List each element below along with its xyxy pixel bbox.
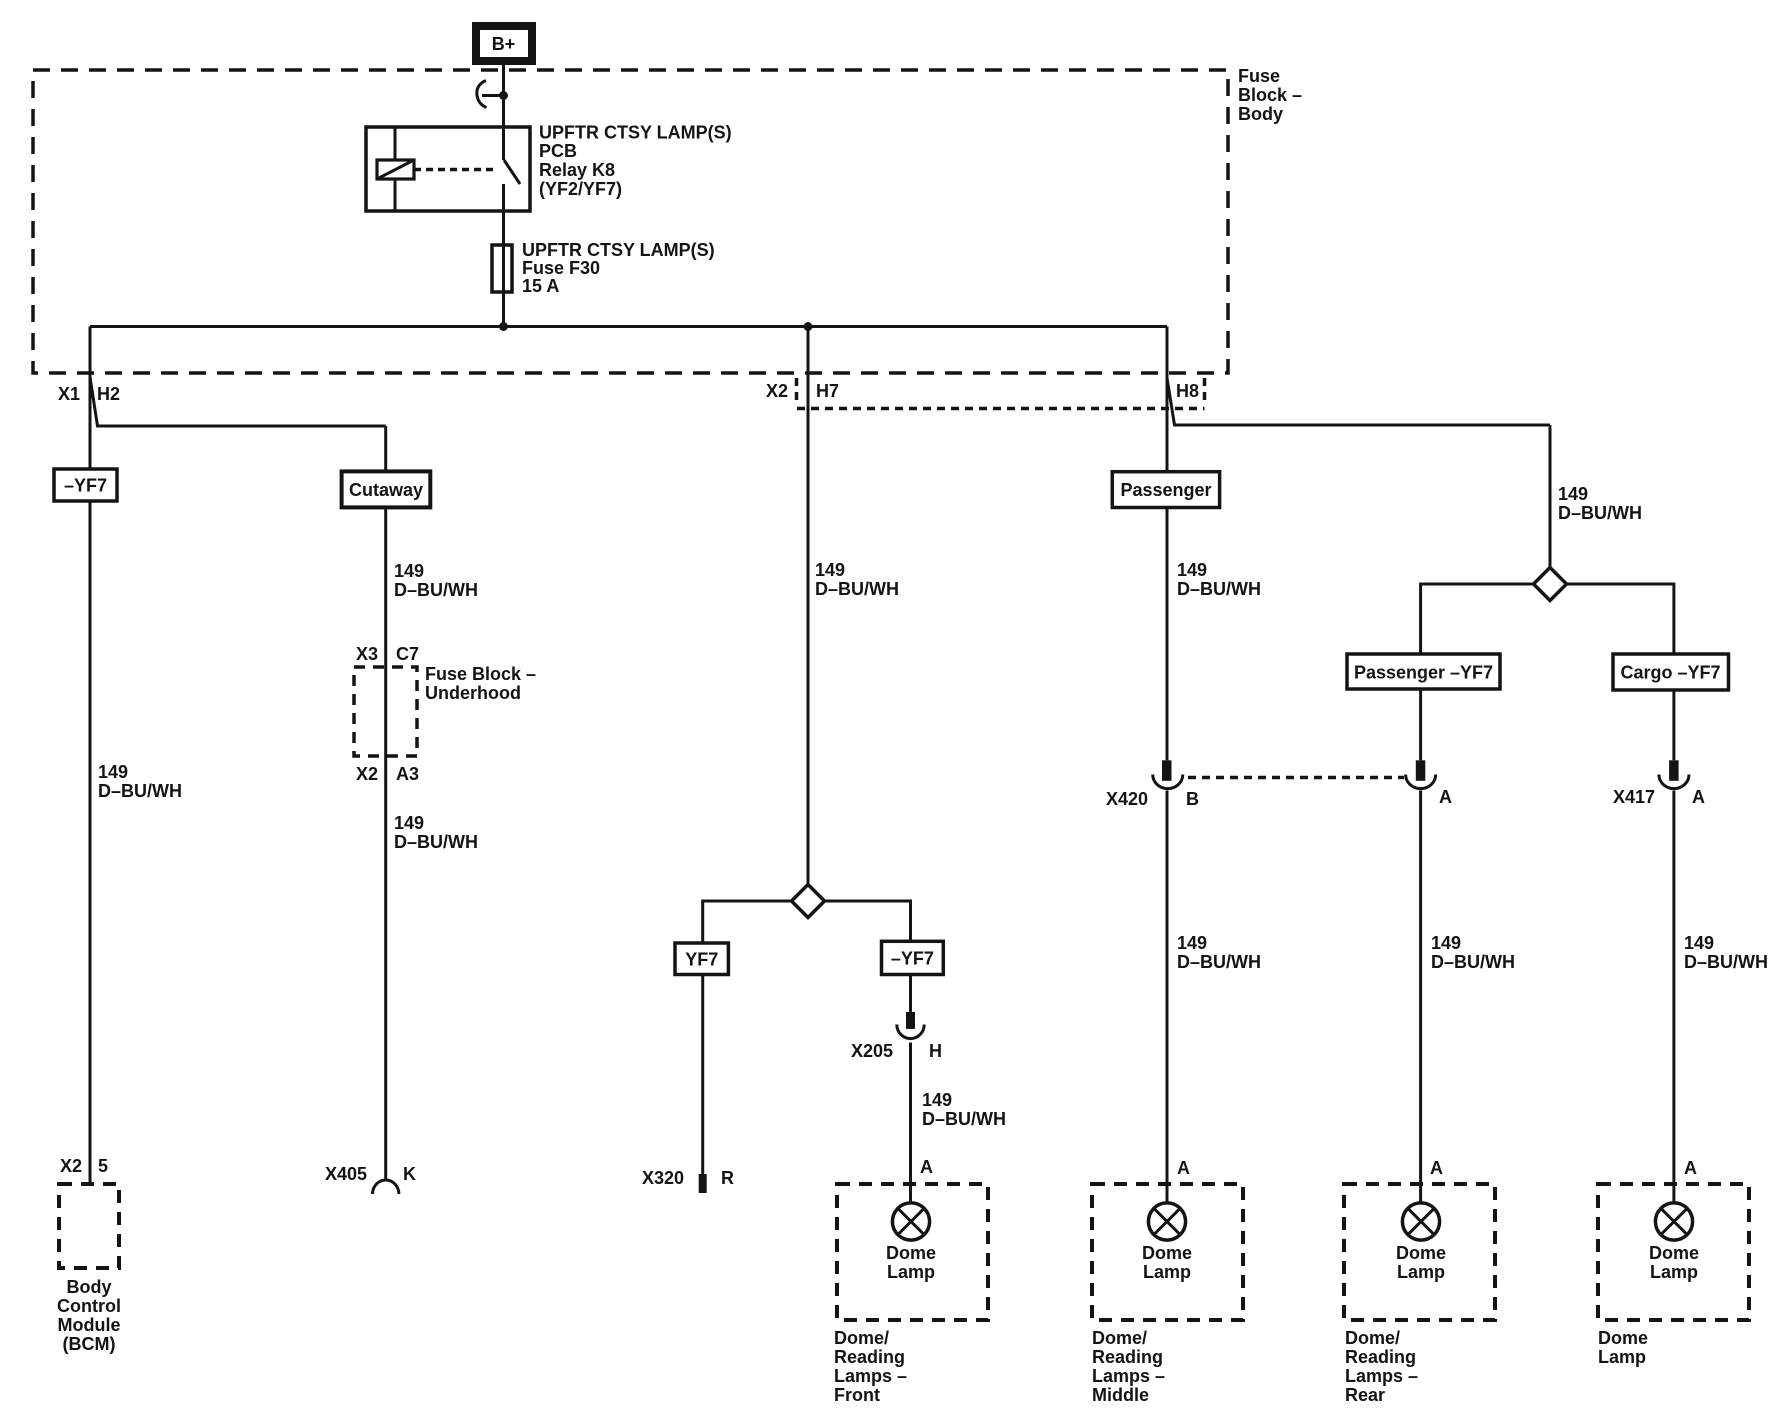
relay output wire [502,184,505,327]
svg-text:149: 149 [922,1090,952,1110]
svg-text:Fuse F30: Fuse F30 [522,258,600,278]
lamp E middle [1148,1203,1185,1240]
option box Cargo -YF7 [1613,654,1729,690]
svg-text:D–BU/WH: D–BU/WH [1558,503,1642,523]
svg-text:X3: X3 [356,644,378,664]
dome reading lamps rear dashed box [1344,1184,1495,1320]
svg-text:D–BU/WH: D–BU/WH [922,1109,1006,1129]
svg-text:Dome: Dome [1598,1328,1648,1348]
svg-text:Lamp: Lamp [1650,1262,1698,1282]
wire jog H8 to right branch [1167,378,1550,425]
svg-text:Lamps –: Lamps – [1092,1366,1165,1386]
wire cutaway drop [384,426,387,1180]
wire -YF7 to X205 [909,975,912,1012]
svg-text:C7: C7 [396,644,419,664]
svg-text:Dome/: Dome/ [1092,1328,1147,1348]
svg-text:A: A [920,1157,933,1177]
svg-text:Lamp: Lamp [1397,1262,1445,1282]
svg-text:Front: Front [834,1385,880,1405]
wire label 149 D-BU/WH cutaway lower [394,813,478,852]
svg-text:YF7: YF7 [685,950,718,970]
svg-text:Body: Body [1238,104,1283,124]
relay label [539,123,732,200]
svg-text:Cargo –YF7: Cargo –YF7 [1620,663,1720,683]
relay contact feed wire [502,127,505,160]
svg-text:X417: X417 [1613,787,1655,807]
svg-text:Reading: Reading [834,1347,905,1367]
wire label 149 D-BU/WH middle [1177,933,1261,972]
svg-text:Control: Control [57,1296,121,1316]
fusible element symbol [477,81,508,108]
wire label 149 D-BU/WH right [1558,484,1642,523]
wire H7 drop [807,327,810,885]
splice diamond S-mid [792,885,825,918]
relay switch blade [504,160,520,184]
svg-text:149: 149 [1684,933,1714,953]
BCM label [57,1277,121,1354]
svg-text:Lamp: Lamp [1598,1347,1646,1367]
svg-text:X405: X405 [325,1164,367,1184]
svg-text:5: 5 [98,1156,108,1176]
wire right feed drop [1549,425,1552,568]
connector link dashed X420 to A [1188,776,1404,780]
relay coil [377,160,414,179]
option box Passenger [1112,472,1219,508]
option box YF7 [675,943,728,975]
lamp label rear [1396,1243,1446,1282]
svg-text:Underhood: Underhood [425,683,521,703]
connector X420 [1153,760,1183,788]
wire label 149 D-BU/WH left [98,762,182,801]
option box Passenger -YF7 [1347,654,1500,689]
wire splice to -YF7 [825,901,911,941]
wire X420 to dome lamp middle [1166,791,1169,1203]
wire to dome lamp rear [1419,791,1422,1203]
lamp E cargo [1655,1203,1692,1240]
wire splice to Passenger-YF7 [1421,584,1534,654]
wire splice to YF7 [703,901,792,943]
svg-text:–YF7: –YF7 [891,949,934,969]
fuse F30 [492,245,512,292]
svg-text:B+: B+ [492,34,516,54]
fuse block body label [1238,66,1302,124]
wire label 149 D-BU/WH X205 [922,1090,1006,1129]
relay inner divider [394,127,397,211]
svg-text:Body: Body [67,1277,112,1297]
svg-text:Dome: Dome [886,1243,936,1263]
fuse block body dashed box [33,70,1228,373]
svg-text:A3: A3 [396,764,419,784]
connector X205 [897,1012,924,1039]
svg-text:Fuse: Fuse [1238,66,1280,86]
option box -YF7 left [54,469,117,501]
svg-text:H8: H8 [1176,381,1199,401]
fuse F30 label [522,240,715,296]
svg-text:H: H [929,1041,942,1061]
svg-text:Rear: Rear [1345,1385,1385,1405]
svg-text:A: A [1177,1158,1190,1178]
svg-text:A: A [1439,787,1452,807]
svg-text:Dome/: Dome/ [1345,1328,1400,1348]
wire Cargo-YF7 to X417 [1672,690,1675,760]
wire to dome lamp cargo [1672,791,1675,1203]
svg-text:Middle: Middle [1092,1385,1149,1405]
svg-text:D–BU/WH: D–BU/WH [1177,579,1261,599]
svg-text:D–BU/WH: D–BU/WH [394,580,478,600]
BCM dashed box [59,1184,119,1268]
power feed B+ [476,26,532,61]
caption rear [1345,1328,1418,1405]
svg-text:A: A [1692,787,1705,807]
svg-text:Dome/: Dome/ [834,1328,889,1348]
svg-text:Dome: Dome [1142,1243,1192,1263]
svg-text:X320: X320 [642,1168,684,1188]
svg-text:H2: H2 [97,384,120,404]
bus wire [90,325,1167,328]
svg-text:Lamp: Lamp [887,1262,935,1282]
svg-text:PCB: PCB [539,141,577,161]
svg-text:Dome: Dome [1396,1243,1446,1263]
svg-text:R: R [721,1168,734,1188]
option box -YF7 mid [882,941,944,974]
svg-text:Relay K8: Relay K8 [539,160,615,180]
dome lamp cargo dashed box [1598,1184,1749,1320]
junction fuse-bus [499,322,508,331]
caption front [834,1328,907,1405]
svg-text:A: A [1684,1158,1697,1178]
svg-text:H7: H7 [816,381,839,401]
svg-text:Reading: Reading [1092,1347,1163,1367]
svg-text:149: 149 [1177,560,1207,580]
svg-text:Passenger –YF7: Passenger –YF7 [1354,663,1493,683]
wire Passenger-YF7 to connector [1419,689,1422,760]
svg-text:Block –: Block – [1238,85,1302,105]
svg-text:UPFTR CTSY LAMP(S): UPFTR CTSY LAMP(S) [522,240,715,260]
svg-text:Lamps –: Lamps – [834,1366,907,1386]
svg-text:Reading: Reading [1345,1347,1416,1367]
wire label 149 D-BU/WH passenger [1177,560,1261,599]
wire X205 to dome lamp front [909,1043,912,1203]
option box Cutaway [342,471,431,507]
svg-text:Passenger: Passenger [1120,480,1211,500]
svg-text:D–BU/WH: D–BU/WH [1431,952,1515,972]
svg-text:149: 149 [98,762,128,782]
svg-text:149: 149 [1431,933,1461,953]
svg-text:149: 149 [1558,484,1588,504]
lamp label front [886,1243,936,1282]
svg-text:D–BU/WH: D–BU/WH [1684,952,1768,972]
wire label 149 D-BU/WH cargo [1684,933,1768,972]
wire left drop H2 to BCM [89,327,92,1185]
svg-text:X2: X2 [766,381,788,401]
svg-text:Cutaway: Cutaway [349,480,423,500]
lamp E front [892,1203,929,1240]
wire label 149 D-BU/WH cutaway upper [394,561,478,600]
wire YF7 to X320 [701,975,704,1175]
svg-text:K: K [403,1164,416,1184]
svg-text:Lamps –: Lamps – [1345,1366,1418,1386]
junction H7-bus [804,322,813,331]
fuse block underhood label [425,664,536,703]
dome reading lamps front dashed box [837,1184,988,1320]
svg-text:(BCM): (BCM) [63,1334,116,1354]
svg-text:–YF7: –YF7 [64,476,107,496]
svg-text:Lamp: Lamp [1143,1262,1191,1282]
svg-text:D–BU/WH: D–BU/WH [98,781,182,801]
lamp label cargo [1649,1243,1699,1282]
svg-text:D–BU/WH: D–BU/WH [1177,952,1261,972]
svg-text:149: 149 [394,561,424,581]
wire B+ to relay [502,65,505,127]
svg-text:D–BU/WH: D–BU/WH [394,832,478,852]
caption middle [1092,1328,1165,1405]
svg-text:149: 149 [394,813,424,833]
svg-text:A: A [1430,1158,1443,1178]
svg-text:Dome: Dome [1649,1243,1699,1263]
relay K8 box U-relay [366,127,530,211]
svg-text:UPFTR CTSY LAMP(S): UPFTR CTSY LAMP(S) [539,123,732,143]
connector X320 terminal [699,1174,707,1193]
wire jog H2 to cutaway branch [90,377,386,426]
lamp E rear [1402,1203,1439,1240]
svg-text:149: 149 [1177,933,1207,953]
wire splice to Cargo-YF7 [1567,584,1674,654]
svg-text:D–BU/WH: D–BU/WH [815,579,899,599]
svg-text:X2: X2 [356,764,378,784]
svg-text:X205: X205 [851,1041,893,1061]
svg-text:B: B [1186,789,1199,809]
connector X405 [373,1180,399,1194]
svg-text:X2: X2 [60,1156,82,1176]
connector X417 [1659,760,1689,788]
splice diamond S-right [1534,568,1567,601]
svg-text:(YF2/YF7): (YF2/YF7) [539,179,622,199]
dome reading lamps middle dashed box [1092,1184,1243,1320]
wire H8 drop [1166,327,1169,761]
svg-text:X1: X1 [58,384,80,404]
svg-text:Fuse Block –: Fuse Block – [425,664,536,684]
svg-text:15 A: 15 A [522,276,559,296]
relay coil to contact dashed link [414,168,497,172]
svg-text:149: 149 [815,560,845,580]
lamp label middle [1142,1243,1192,1282]
wire label 149 D-BU/WH H7 [815,560,899,599]
X2 connector dotted bracket [797,378,1205,409]
connector A rear-pass [1406,760,1436,788]
fuse block underhood dashed box [354,667,417,756]
svg-text:X420: X420 [1106,789,1148,809]
wire label 149 D-BU/WH rear [1431,933,1515,972]
svg-text:Module: Module [58,1315,121,1335]
caption cargo [1598,1328,1648,1367]
